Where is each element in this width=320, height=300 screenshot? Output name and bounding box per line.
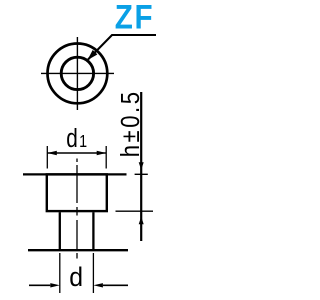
svg-text:h±0.5: h±0.5: [116, 89, 145, 157]
svg-text:d: d: [69, 263, 83, 292]
svg-text:ZF: ZF: [115, 0, 155, 36]
